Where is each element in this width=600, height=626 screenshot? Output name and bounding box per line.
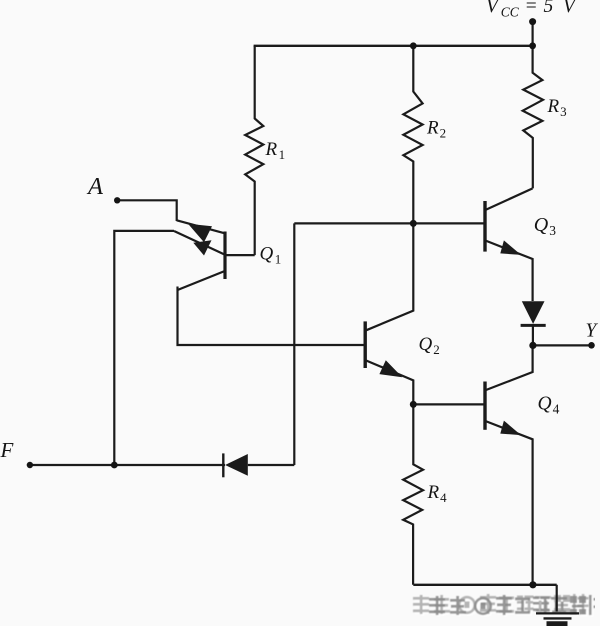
diode D2 output cathode bar — [521, 324, 546, 327]
node rail-R3 junction dot — [529, 42, 536, 49]
wire top Vcc rail — [254, 45, 533, 47]
resistor R2 — [403, 46, 422, 224]
transistor Q3 collector — [485, 188, 533, 210]
diode D2 output triangle — [522, 301, 545, 324]
ground bar 1 — [536, 612, 579, 614]
transistor Q1 collector — [178, 271, 225, 290]
transistor Q1 emitter 2 feed wire — [114, 231, 174, 465]
wire Q1 collector to Q2 base — [178, 287, 366, 346]
wire bottom rail — [413, 584, 556, 586]
transistor Q1 base lead to R1 — [225, 254, 255, 256]
svg-text:Q1: Q1 — [260, 244, 282, 267]
transistor Q1 emitter 2 — [174, 231, 225, 255]
node Y terminal dot — [588, 342, 595, 349]
node rail-R2 junction dot — [410, 42, 417, 49]
node phase splitter junction dot — [410, 220, 417, 227]
svg-text:R2: R2 — [426, 118, 446, 141]
resistor R1 — [245, 46, 263, 255]
diode D1 input clamp cathode bar — [222, 453, 224, 477]
transistor Q4 emitter — [485, 421, 533, 585]
resistor R4 — [403, 404, 423, 584]
svg-text:R4: R4 — [427, 482, 448, 505]
wire Vcc terminal drop — [531, 22, 533, 46]
svg-text:F: F — [0, 438, 14, 462]
node input F terminal dot — [27, 462, 33, 468]
svg-text:R1: R1 — [265, 139, 286, 162]
node output junction dot — [529, 342, 536, 349]
svg-text:Y: Y — [586, 321, 599, 342]
node Q2 emitter junction dot — [410, 401, 417, 408]
wire feedback vertical from node to diode — [293, 223, 295, 465]
transistor Q1 base bar — [223, 232, 226, 280]
wire diode D2 to output junction — [532, 325, 534, 345]
svg-text:VCC=5V: VCC=5V — [486, 0, 577, 20]
svg-text:A: A — [86, 173, 104, 200]
wire node row: Q2 collector node to Q3 base — [294, 222, 485, 224]
svg-text:Q2: Q2 — [419, 334, 440, 357]
transistor Q4 emitter arrow — [500, 421, 521, 436]
wire output junction to Y terminal — [533, 344, 592, 346]
transistor Q2 base bar — [364, 321, 367, 368]
transistor Q1 emitter arrow 2 — [193, 240, 211, 255]
transistor Q4 collector — [485, 345, 533, 390]
node bottom rail junction dot — [529, 581, 536, 588]
transistor Q3 emitter — [485, 240, 533, 301]
svg-text:Q4: Q4 — [538, 394, 560, 417]
wire input A — [117, 200, 177, 221]
wire ground drop — [556, 585, 558, 612]
wire input F to diode cathode — [30, 464, 225, 466]
svg-text:Q3: Q3 — [534, 214, 556, 238]
transistor Q3 base bar — [483, 201, 486, 252]
wire Q2 emitter junction to Q4 base — [413, 403, 485, 405]
node F junction dot — [111, 462, 118, 469]
ground bar 3 — [547, 621, 568, 626]
transistor Q4 base bar — [483, 382, 486, 430]
resistor R3 — [523, 46, 543, 189]
transistor Q1 emitter 1 — [177, 220, 225, 233]
transistor Q2 collector — [365, 223, 413, 330]
diode D1 input clamp triangle — [225, 454, 248, 476]
transistor Q1 emitter arrow 1 — [188, 224, 212, 243]
transistor Q2 emitter — [365, 360, 413, 404]
transistor Q3 emitter arrow — [500, 240, 521, 255]
ground bar 2 — [544, 617, 572, 619]
node input A terminal dot — [114, 197, 120, 203]
node Vcc terminal dot — [529, 18, 536, 25]
transistor Q2 emitter arrow — [379, 360, 402, 377]
svg-text:R3: R3 — [547, 96, 567, 119]
wire diode anode to feedback vertical — [248, 464, 294, 466]
